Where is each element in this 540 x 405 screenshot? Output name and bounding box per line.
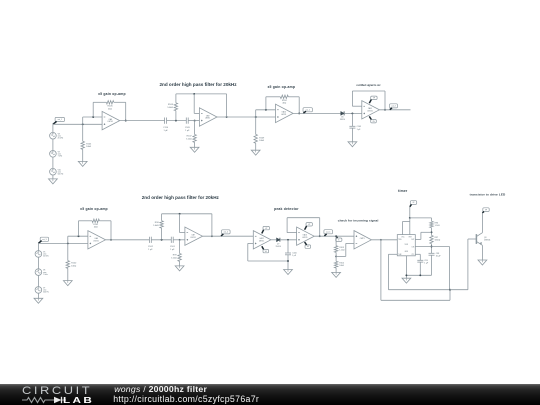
svg-text:R107: R107 (187, 136, 193, 138)
svg-text:10kΩ: 10kΩ (259, 140, 264, 142)
wire (82, 149, 84, 161)
svg-text:R108: R108 (168, 104, 174, 106)
wire: op4 output (379, 109, 410, 111)
wire: buffer + input loop (248, 242, 254, 244)
node B (194, 120, 196, 122)
wire (255, 143, 257, 150)
wire: DIS pin line (415, 246, 449, 248)
svg-text:C109: C109 (185, 127, 191, 129)
wire: tap down to op6 minus (179, 214, 181, 233)
flag VCC (timer supply) (410, 201, 416, 205)
flag out_2 (op3 output) (303, 108, 312, 112)
svg-text:1 µF: 1 µF (357, 129, 362, 131)
svg-text:R106: R106 (108, 106, 114, 108)
flag V+ (op8) (306, 223, 312, 226)
svg-text:check for incoming signal: check for incoming signal (338, 219, 379, 223)
svg-text:R110: R110 (282, 100, 288, 102)
node: rail tap to inverting input (193, 93, 195, 95)
svg-text:4kΩ: 4kΩ (282, 103, 286, 105)
svg-text:R101: R101 (93, 224, 99, 226)
svg-text:500 Hz: 500 Hz (43, 292, 49, 294)
flag th (threshold net) (336, 238, 342, 241)
svg-text:1N914: 1N914 (340, 119, 345, 121)
source V6 (sine 7kHz) (35, 269, 42, 276)
diode D7 (peak detector) (277, 238, 280, 242)
source V9 (sine 7kHz) (50, 151, 57, 158)
svg-text:DIS: DIS (412, 246, 415, 248)
wire: VCC down to pins (409, 218, 411, 235)
resistor R106 (op1 feedback) (106, 101, 114, 104)
wire: up to rail (175, 94, 177, 103)
svg-text:LM741: LM741 (190, 237, 195, 239)
ground (C105) (348, 142, 357, 147)
wire: V source stem (52, 124, 54, 132)
svg-text:560kΩ: 560kΩ (435, 239, 441, 241)
node: feedback tap op3 (265, 109, 267, 111)
flag out_4 (op6 output) (222, 230, 231, 234)
ground (bottom sources) (34, 298, 43, 303)
wire (37, 275, 39, 286)
wire: op2 feedback vertical (226, 94, 228, 117)
svg-text:5.1kΩ: 5.1kΩ (171, 257, 177, 259)
svg-text:VP: VP (265, 228, 267, 230)
flag out_5 (op8 output) (324, 230, 333, 234)
wire: top input node (53, 123, 102, 125)
flag V- (buffer) (263, 249, 269, 252)
resistor R102 (to ground) (66, 261, 69, 269)
flag out_3 (top row output) (390, 104, 398, 108)
node: op3 output (298, 112, 300, 114)
svg-text:1.1kΩ: 1.1kΩ (339, 250, 345, 252)
svg-text:1 µF: 1 µF (185, 130, 190, 132)
node: op8 output (319, 235, 321, 237)
wire: divider to op9 minus (336, 255, 346, 257)
wire: bottom input node (38, 242, 88, 244)
svg-text:VP: VP (308, 224, 310, 226)
op-amp OA1 (x5 gain) (102, 111, 120, 129)
node: feedback meets cap (287, 260, 289, 262)
wire: op6 output (203, 235, 254, 237)
source V10 (sine 500Hz) (50, 168, 57, 175)
wire: down to R103 (335, 236, 337, 246)
svg-text:out_4: out_4 (224, 231, 228, 234)
wire (351, 128, 353, 142)
resistor R110 (op3 feedback) (280, 95, 288, 98)
svg-text:out_5: out_5 (326, 230, 330, 233)
svg-text:LM741: LM741 (281, 114, 286, 116)
diode D6 (rectifier) (341, 111, 344, 115)
svg-text:VN: VN (265, 251, 267, 253)
source V7 (sine 500Hz) (35, 287, 42, 294)
wire: cap down and left to gnd rail (431, 255, 433, 275)
ground (R105) (78, 161, 87, 166)
node A2 (161, 239, 163, 241)
node: Ra/Rb junction (431, 231, 433, 233)
svg-text:LM741: LM741 (367, 110, 372, 112)
flag V+ (buffer) (263, 226, 269, 229)
svg-text:out_1: out_1 (58, 118, 62, 121)
svg-text:1 µF: 1 µF (292, 255, 297, 257)
wire: node A up to R108 (175, 111, 177, 121)
transistor Q3 (475, 234, 477, 244)
svg-text:R109: R109 (259, 137, 265, 139)
wire: down to R102 (67, 243, 69, 260)
svg-text:10kΩ: 10kΩ (86, 146, 91, 148)
resistor R105 (input to ground) (81, 141, 84, 149)
svg-text:out_3: out_3 (391, 105, 395, 108)
node: cap tap (351, 112, 353, 114)
node: comparator output / loop tap (380, 239, 382, 241)
wire: feedback top op1 (93, 101, 106, 103)
wire (194, 142, 196, 147)
resistor R103 (divider top) (334, 246, 337, 253)
svg-text:1 µF: 1 µF (424, 263, 429, 265)
svg-text:10 µF: 10 µF (436, 256, 442, 258)
wire: branch up to op3 minus (255, 110, 257, 117)
wire (37, 293, 39, 298)
svg-text:20 kHz: 20 kHz (58, 138, 64, 140)
svg-text:LM741: LM741 (302, 237, 307, 239)
ground (sources) (49, 179, 58, 184)
svg-text:VP: VP (373, 98, 375, 100)
svg-text:out_3: out_3 (42, 238, 46, 241)
capacitor C100 (peak hold) (285, 252, 291, 254)
source V8 (sine 20kHz) (50, 132, 57, 139)
op-amp OA13 (peak detector) (297, 227, 315, 245)
node: feedback tap op1 (92, 116, 94, 118)
resistor R104 (divider bottom) (334, 261, 337, 268)
svg-text:7 kHz: 7 kHz (58, 156, 63, 158)
wire: V source stem (37, 243, 39, 250)
svg-text:1 µF: 1 µF (148, 249, 153, 251)
svg-text:CTL: CTL (411, 254, 414, 256)
wire: down to C100 (287, 240, 289, 253)
svg-text:10kΩ: 10kΩ (339, 265, 344, 267)
wire (335, 268, 337, 272)
source V5 (sine 20kHz) (35, 251, 42, 258)
wire: feedback right op1 (125, 102, 127, 120)
wire: comparator output to 555 (371, 239, 397, 241)
svg-text:2N3904: 2N3904 (484, 239, 490, 241)
op-amp OA4 (rectifier buffer) (362, 101, 380, 119)
svg-text:5.6kΩ: 5.6kΩ (153, 225, 159, 227)
capacitor C105 (to ground) (349, 125, 355, 127)
svg-text:10kΩ: 10kΩ (71, 265, 76, 267)
svg-text:5.6kΩ: 5.6kΩ (167, 107, 173, 109)
wire: feedback top op3 (266, 96, 280, 98)
resistor R96 (555 Ra) (430, 221, 433, 227)
ground (555) (402, 278, 411, 283)
svg-text:1 µF: 1 µF (170, 249, 175, 251)
wire: feedback top op5 (79, 220, 93, 222)
svg-text:VN: VN (372, 121, 374, 123)
wire: VCC to right chain (410, 217, 432, 219)
wire: op4 feedback loop (352, 105, 361, 107)
wire: THR loop (left around) (389, 253, 398, 255)
svg-text:x5 gain op-amp: x5 gain op-amp (267, 85, 295, 89)
resistor R107 (to ground) (193, 135, 196, 143)
node: op2 output (226, 116, 228, 118)
node: DIS line crossing (431, 246, 433, 248)
svg-text:CMP1: CMP1 (360, 238, 365, 240)
comparator CMP1 (354, 231, 371, 249)
wire: op5 output (106, 239, 150, 241)
node: op1 output (125, 120, 127, 122)
wire: feedback rail op6 (162, 213, 212, 215)
svg-text:5.1kΩ: 5.1kΩ (186, 138, 192, 140)
node: op4 output (384, 109, 386, 111)
capacitor C98 (timing) (429, 252, 435, 254)
op-amp OA3 (x5 gain) (276, 104, 294, 122)
wire: emitter down (481, 245, 483, 260)
wire: op3 output (293, 112, 341, 114)
capacitor C110 (series) (164, 118, 166, 124)
node: rail tap op6 minus (179, 213, 181, 215)
flag IN2 (bottom input net flag) (40, 237, 48, 241)
ground (C100) (284, 270, 293, 275)
wire (52, 157, 54, 168)
op-amp OA6 (Sallen-Key bottom) (185, 227, 203, 245)
svg-text:LM741: LM741 (205, 118, 210, 120)
node: VCC distribution (409, 217, 411, 219)
wire: op8 output (314, 235, 354, 237)
node: loop meet (449, 289, 451, 291)
svg-text:VN: VN (307, 246, 309, 248)
svg-text:x5 gain op-amp: x5 gain op-amp (80, 207, 108, 211)
op-amp OA12 (peak detector buffer) (253, 231, 271, 249)
wire: node B down to R107 (194, 121, 196, 135)
wire: op2 output (217, 116, 276, 118)
svg-text:1.1kΩ: 1.1kΩ (435, 225, 441, 227)
wire: feedback right op5 (110, 221, 112, 240)
svg-text:2nd order high pass filter for: 2nd order high pass filter for 20kHz (142, 195, 220, 200)
resistor R98 (to feedback rail) (160, 221, 163, 228)
wire: feedback vertical left op3 (265, 97, 267, 110)
capacitor C109 (series) (185, 118, 187, 124)
wire: into op2 plus (188, 120, 199, 122)
wire: feedback rail op2 (176, 93, 227, 95)
flag IN1 (top input net flag) (55, 117, 64, 121)
node: C99 to rail (419, 274, 421, 276)
wire: OUT pin to junction (415, 238, 421, 240)
wire: outer loop left/bottom/up (380, 240, 382, 300)
wire: GND pin down (405, 256, 407, 278)
resistor R109 (to ground) (254, 134, 257, 143)
svg-text:7 kHz: 7 kHz (43, 274, 48, 276)
wire: node B2 down to R99 (179, 240, 181, 254)
IC 555 timer box (397, 235, 415, 256)
node A (between caps) (175, 120, 177, 122)
wire (271, 239, 277, 241)
resistor R99 (to ground) (178, 254, 181, 262)
svg-text:peak detector: peak detector (274, 207, 299, 211)
resistor R97 (555 Rb) (430, 235, 433, 243)
wire: op1 output (120, 120, 165, 122)
wire (151, 239, 171, 241)
ground (divider) (332, 272, 341, 277)
wire (52, 175, 54, 179)
wire: branch up to op5 minus (67, 236, 69, 243)
flag V+ (op4) (371, 96, 377, 99)
wire: feedback vertical left op5 (78, 221, 80, 236)
ground (R99) (175, 266, 184, 271)
wire (335, 252, 337, 261)
svg-text:transistor to drive LED: transistor to drive LED (470, 193, 506, 197)
capacitor C101 (series) (170, 237, 172, 243)
wire: CTL pin to C99 (415, 253, 420, 255)
svg-text:R102: R102 (71, 263, 77, 265)
wire: down to R109 (255, 117, 257, 134)
svg-text:1N914: 1N914 (276, 246, 281, 248)
wire: into op6 plus (173, 239, 185, 241)
capacitor C99 (control) (417, 259, 423, 261)
flag V- (op8) (305, 245, 311, 248)
node: R102 junction (67, 242, 69, 244)
wire (167, 120, 187, 122)
flag VP (collector) (483, 208, 489, 212)
wire (344, 112, 362, 114)
node B2 (179, 239, 181, 241)
capacitor C102 (series) (148, 237, 150, 243)
node: peak cap tap (287, 239, 289, 241)
svg-text:LM741: LM741 (93, 240, 98, 242)
ground (R109) (251, 150, 260, 155)
wire (419, 262, 421, 275)
svg-text:R99: R99 (173, 255, 178, 257)
svg-text:LM741: LM741 (259, 240, 264, 242)
svg-text:out_2: out_2 (306, 108, 310, 111)
wire: tap down to op2 minus (193, 94, 195, 114)
wire: node A2 up to R98 (161, 228, 163, 240)
wire: VCC flag down (409, 207, 411, 218)
resistor R101 (op5 feedback) (92, 219, 99, 222)
svg-text:2nd order high pass filter for: 2nd order high pass filter for 20kHz (159, 82, 237, 87)
svg-text:C101: C101 (170, 246, 176, 248)
op-amp OA5 (x5 gain bottom) (88, 231, 106, 249)
logo squiggle: resistor + diode (21, 396, 71, 404)
svg-text:timer: timer (398, 189, 408, 193)
node: gnd rail (405, 274, 407, 276)
node: feedback tap op5 (78, 235, 80, 237)
resistor R108 (to feedback rail) (174, 103, 177, 111)
svg-text:C110: C110 (163, 127, 169, 129)
wire: up to rail (161, 214, 163, 221)
wire: to transistor base (450, 289, 468, 291)
flag V- (op4) (371, 120, 377, 123)
svg-text:4kΩ: 4kΩ (94, 227, 98, 229)
svg-text:20 kHz: 20 kHz (43, 256, 49, 258)
wire: branch up to inverting input (82, 117, 84, 124)
svg-text:VP: VP (412, 202, 414, 204)
ground (R102) (63, 281, 72, 286)
wire: op6 feedback vertical (211, 214, 213, 236)
wire (431, 244, 433, 254)
wire (67, 268, 69, 280)
svg-text:C102: C102 (148, 246, 154, 248)
svg-text:1 µF: 1 µF (163, 130, 168, 132)
svg-text:VP: VP (485, 209, 487, 211)
wire: down to C105 (351, 113, 353, 126)
node: threshold divider tap (335, 235, 337, 237)
wire: feedback right op3 (298, 97, 300, 114)
wire: feedback vertical left op1 (92, 102, 94, 117)
wire: collector up (481, 213, 483, 233)
wire (287, 255, 289, 270)
node: op3 input junction (255, 116, 257, 118)
node: op6 output (211, 235, 213, 237)
wire (431, 228, 433, 236)
svg-text:rectified signal to o/v: rectified signal to o/v (357, 84, 382, 87)
wire (37, 257, 39, 269)
wire (179, 261, 181, 266)
svg-text:R98: R98 (155, 222, 160, 224)
wire (52, 139, 54, 151)
svg-text:x5 gain op-amp: x5 gain op-amp (98, 92, 126, 96)
ground (R107) (190, 147, 199, 152)
svg-text:500 Hz: 500 Hz (58, 174, 64, 176)
ground (emitter) (478, 260, 487, 265)
node: op5 output (110, 239, 112, 241)
svg-text:RST: RST (409, 236, 412, 238)
svg-text:OUT: OUT (411, 239, 414, 241)
node: divider mid (335, 255, 337, 257)
wire: op8 feedback loop (287, 232, 297, 234)
node: R105 junction (82, 123, 84, 125)
op-amp OA2 (Sallen-Key) (199, 108, 217, 126)
svg-text:4kΩ: 4kΩ (108, 108, 112, 110)
svg-text:LM741: LM741 (108, 121, 113, 123)
wire: down to R105 (82, 124, 84, 141)
svg-text:R105: R105 (86, 143, 92, 145)
wire: DIS down right side (449, 247, 451, 290)
